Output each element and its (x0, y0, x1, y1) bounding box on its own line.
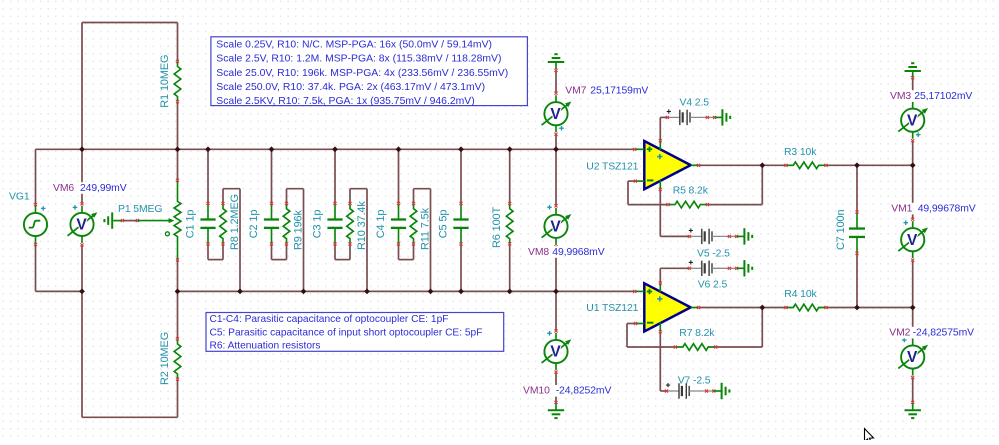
resistor R8 (220, 202, 227, 246)
op-amp U2 (633, 139, 700, 191)
junction bottom-left / VM6 (79, 289, 85, 295)
svg-text:R6: Attenuation resistors: R6: Attenuation resistors (210, 341, 321, 352)
svg-text:V: V (907, 232, 918, 249)
resistor R5 (666, 201, 709, 208)
label VM1 (889, 203, 978, 215)
voltmeter VM7 (542, 92, 572, 136)
label VM2 (887, 327, 977, 339)
label C1 (185, 210, 197, 239)
wire VG1 branch (36, 149, 83, 291)
svg-text:U2 TSZ121: U2 TSZ121 (586, 161, 638, 172)
label V4 (680, 97, 710, 108)
junction bottom bus / R10 (364, 289, 370, 295)
svg-text:R6 100T: R6 100T (491, 206, 503, 248)
svg-text:V: V (76, 217, 87, 234)
wire U2 feedback (628, 165, 762, 204)
wire U1 V+ pin (659, 268, 661, 283)
wire bottom-left loop (82, 291, 178, 417)
svg-text:Scale 0.25V, R10: N/C. MSP-PGA: Scale 0.25V, R10: N/C. MSP-PGA: 16x (50.… (216, 40, 492, 51)
svg-text:C5: Parasitic capacitance of i: C5: Parasitic capacitance of input short… (210, 327, 483, 338)
wire U1 feedback (627, 308, 762, 348)
label V7 (678, 376, 711, 387)
svg-text:V4 2.5: V4 2.5 (680, 97, 710, 108)
wire VM6 branch (81, 149, 83, 291)
voltmeter VM8 (542, 204, 572, 248)
resistor R11 (410, 202, 417, 246)
label VM3 (888, 90, 975, 102)
wire top bus (82, 148, 635, 150)
junction bottom bus / R11 (428, 289, 434, 295)
ground above VM7 (548, 54, 564, 72)
svg-text:V6 2.5: V6 2.5 (698, 279, 728, 290)
label VM10 (521, 385, 614, 397)
wire V5 to U2 (660, 235, 689, 237)
wire P1 branch (177, 149, 179, 291)
svg-text:Scale 2.5KV, R10: 7.5k, PGA: 1: Scale 2.5KV, R10: 7.5k, PGA: 1x (935.75m… (216, 96, 474, 107)
wire VM10 branch (555, 291, 557, 402)
voltmeter VM2 (898, 335, 928, 379)
svg-text:V: V (907, 112, 918, 129)
note box scales (211, 37, 528, 107)
svg-text:25,17102mV: 25,17102mV (914, 91, 972, 102)
resistor R9 (283, 202, 290, 246)
junction top bus / C2 (269, 146, 275, 152)
svg-text:R11 7.5k: R11 7.5k (420, 207, 432, 250)
label P1 (118, 204, 162, 215)
wire top-left loop (36, 23, 178, 150)
svg-text:-24,8252mV: -24,8252mV (556, 386, 612, 397)
svg-text:R1 10MEG: R1 10MEG (159, 55, 171, 108)
wire P1 wiper (113, 219, 139, 222)
label C7 (835, 209, 847, 250)
wire C3 branch (335, 149, 350, 259)
potentiometer P1 (138, 179, 181, 262)
wire V4 to U2 (660, 116, 667, 118)
note box components (206, 313, 504, 352)
label R5 (673, 186, 709, 197)
wire R11 branch (414, 189, 431, 292)
junction bottom bus / R6 (507, 289, 513, 295)
label VM7 (563, 85, 651, 97)
label R3 (784, 147, 817, 158)
junction bottom bus / R9 (301, 289, 307, 295)
junction bottom bus / C5 (458, 289, 464, 295)
resistor R6 (506, 202, 513, 245)
label R10 (356, 201, 368, 250)
svg-text:V: V (907, 349, 918, 366)
voltmeter VM6 (68, 202, 98, 246)
op-amp U1 (633, 281, 700, 333)
svg-text:Scale 25.0V, R10: 196k. MSP-PG: Scale 25.0V, R10: 196k. MSP-PGA: 4x (233… (216, 68, 508, 79)
svg-text:C1 1p: C1 1p (185, 210, 197, 239)
junction U2 output / R5 feedback (759, 162, 765, 168)
junction bottom bus / R8 (237, 289, 243, 295)
junction bottom bus / VM8-VM10 (553, 289, 559, 295)
label C4 (375, 210, 387, 239)
svg-text:VM7: VM7 (565, 85, 586, 96)
junction U1 output / R7 feedback (759, 305, 765, 311)
junction top bus / R1-P1 (175, 146, 181, 152)
junction bottom bus / P1-R2 (175, 289, 181, 295)
wire VM7 branch (555, 70, 557, 149)
junction top bus / C4 (396, 146, 402, 152)
wire R9 branch (287, 189, 304, 292)
label R9 (293, 209, 305, 250)
resistor R4 (784, 304, 827, 311)
label U2 (586, 161, 638, 172)
junction top bus / VM7-VM8 (553, 146, 559, 152)
mouse cursor (865, 429, 874, 444)
wire U2 V- pin (659, 189, 661, 236)
svg-text:R7 8.2k: R7 8.2k (679, 328, 715, 339)
resistor R1 (174, 60, 181, 104)
wire VM8 branch (555, 149, 557, 291)
voltmeter VM10 (542, 329, 572, 373)
svg-text:VM1: VM1 (891, 203, 912, 214)
resistor R10 (347, 202, 354, 246)
label C3 (312, 210, 324, 239)
svg-text:R8 1.2MEG: R8 1.2MEG (229, 194, 241, 250)
resistor R2 (174, 337, 181, 381)
label R4 (784, 289, 817, 300)
svg-text:C5 5p: C5 5p (438, 210, 450, 239)
junction U1 net / C7 (854, 305, 860, 311)
junction U2 net / C7 (854, 162, 860, 168)
wire V6 to U1 (660, 267, 689, 269)
wire U2 output net (699, 164, 913, 166)
label VM8 (526, 246, 607, 258)
resistor R7 (674, 344, 717, 351)
voltmeter VM3 (898, 98, 928, 142)
svg-text:VM10: VM10 (523, 386, 550, 397)
svg-text:P1 5MEG: P1 5MEG (118, 204, 162, 215)
voltmeter VM1 (898, 218, 928, 262)
source VG1 (24, 203, 47, 246)
svg-text:C4 1p: C4 1p (375, 210, 387, 239)
wire R10 branch (350, 189, 367, 292)
wire C2 branch (272, 149, 287, 259)
svg-text:V: V (550, 106, 561, 123)
label R1 (159, 55, 171, 108)
wire U1 V- pin (659, 332, 661, 391)
junction top bus / C5 (458, 146, 464, 152)
battery V6 (688, 260, 752, 276)
svg-text:V: V (550, 219, 561, 236)
svg-text:C7 100n: C7 100n (835, 209, 847, 250)
svg-text:U1 TSZ121: U1 TSZ121 (586, 303, 638, 314)
label C2 (248, 210, 260, 239)
svg-text:Scale 2.5V, R10: 1.2M. MSP-PGA: Scale 2.5V, R10: 1.2M. MSP-PGA: 8x (115.… (216, 54, 501, 65)
svg-text:VM3: VM3 (890, 91, 911, 102)
svg-text:R9 196k: R9 196k (293, 209, 305, 250)
svg-text:R10 37.4k: R10 37.4k (356, 201, 368, 250)
junction top bus / R6 (507, 146, 513, 152)
junction U1 net / VM1-VM2 (910, 305, 916, 311)
wire U2 V+ pin (659, 117, 661, 140)
label V5 (697, 249, 730, 260)
capacitor C4 (391, 202, 406, 246)
svg-text:V: V (550, 344, 561, 361)
svg-text:VM6: VM6 (53, 183, 74, 194)
svg-text:49,9968mV: 49,9968mV (552, 247, 604, 258)
svg-text:R5 8.2k: R5 8.2k (673, 186, 709, 197)
svg-text:Scale 250.0V, R10: 37.4k. PGA:: Scale 250.0V, R10: 37.4k. PGA: 2x (463.1… (216, 82, 485, 93)
wire VM3 branch (912, 78, 914, 166)
label C5 (438, 210, 450, 239)
label R11 (420, 207, 432, 250)
label VG1 (9, 192, 30, 203)
junction top bus / C1 (205, 146, 211, 152)
wire C1 branch (208, 149, 223, 259)
svg-text:V7 -2.5: V7 -2.5 (678, 376, 711, 387)
svg-text:C1-C4: Parasitic capacitance o: C1-C4: Parasitic capacitance of optocoup… (210, 314, 449, 325)
wire VM1 branch (912, 165, 914, 307)
capacitor C5 (453, 202, 468, 246)
wire V7 to U1 (660, 390, 666, 392)
svg-text:VM2: VM2 (889, 327, 910, 338)
wire C7 branch (856, 165, 858, 307)
wire R8 branch (223, 189, 240, 292)
svg-text:VM8: VM8 (528, 247, 549, 258)
resistor R3 (784, 162, 827, 169)
svg-text:V5 -2.5: V5 -2.5 (697, 249, 730, 260)
svg-text:R4 10k: R4 10k (784, 289, 817, 300)
svg-text:VG1: VG1 (9, 192, 30, 203)
label R6 (491, 206, 503, 248)
capacitor C2 (264, 202, 279, 246)
ground P1 (104, 212, 112, 228)
capacitor C3 (327, 202, 342, 246)
battery V5 (688, 228, 752, 244)
label U1 (586, 303, 638, 314)
junction U2 net / VM3-VM1 (910, 162, 916, 168)
ground above VM3 (905, 63, 921, 79)
label R2 (159, 332, 171, 385)
ground below VM2 (905, 401, 921, 418)
label V6 (698, 279, 728, 290)
junction top bus / C3 (332, 146, 338, 152)
svg-text:R2 10MEG: R2 10MEG (159, 332, 171, 385)
capacitor C1 (200, 202, 215, 246)
wire C5 branch (460, 149, 462, 291)
capacitor C7 (849, 211, 865, 255)
svg-text:R3 10k: R3 10k (784, 147, 817, 158)
wire C4 branch (399, 149, 414, 259)
label R8 (229, 194, 241, 250)
svg-text:-24,82575mV: -24,82575mV (913, 327, 974, 338)
svg-text:249,99mV: 249,99mV (80, 183, 127, 194)
wire U1 output net (699, 307, 913, 309)
label VM6 (51, 182, 129, 194)
ground below VM10 (548, 401, 564, 418)
svg-text:25,17159mV: 25,17159mV (590, 85, 648, 96)
battery V7 (665, 383, 729, 399)
wire R6 branch (509, 149, 511, 291)
svg-text:49,99678mV: 49,99678mV (918, 203, 976, 214)
junction top bus / VM6 (79, 146, 85, 152)
battery V4 (666, 109, 730, 125)
wire bottom bus (178, 290, 635, 292)
wire VM2 branch (912, 308, 914, 403)
svg-text:C2 1p: C2 1p (248, 210, 260, 239)
svg-text:C3 1p: C3 1p (312, 210, 324, 239)
label R7 (679, 328, 715, 339)
